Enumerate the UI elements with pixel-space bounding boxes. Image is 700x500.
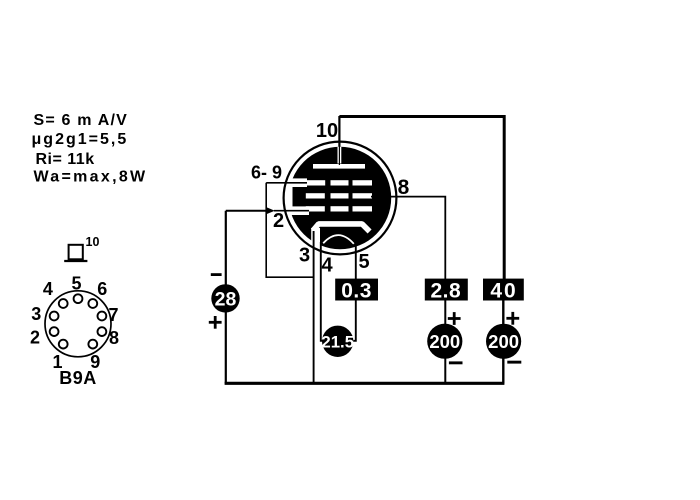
wire 2.8 column to ground bus [444, 301, 446, 384]
svg-text:B9A: B9A [59, 368, 97, 388]
wire 0.3 box to meter 21.5 [354, 301, 356, 341]
minus sign below right meter 200 [507, 361, 521, 364]
svg-text:3: 3 [299, 245, 310, 267]
minus sign above meter 28 [211, 273, 222, 276]
box 0.3 [335, 279, 378, 301]
wire 6-9 down and across to cathode line [266, 183, 313, 277]
svg-text:2: 2 [30, 327, 40, 347]
socket pin hole 9 [88, 340, 97, 349]
svg-text:2: 2 [273, 210, 284, 232]
arrow into tube at pin 2 [267, 207, 275, 214]
white halo around grid 6-9 entry wire [285, 178, 307, 187]
minus sign below left meter 200 [449, 361, 463, 364]
wire pin5 heater to 0.3 box [355, 244, 357, 280]
svg-text:4: 4 [43, 279, 53, 299]
cathode [313, 224, 370, 232]
svg-text:4: 4 [321, 254, 333, 276]
svg-text:8: 8 [109, 328, 119, 348]
grid row 3 dashes [306, 206, 372, 211]
wire pin10 halo through disc [337, 147, 341, 164]
meter 200 left [427, 324, 462, 359]
meter 28 [211, 284, 239, 312]
svg-text:5: 5 [358, 251, 369, 273]
socket pin hole 1 [59, 340, 68, 349]
svg-text:10: 10 [86, 235, 100, 249]
white notch at left electrode entries [285, 179, 292, 213]
socket pin hole 6 [88, 299, 97, 308]
wire anode supply: top run and right drop to 40 box [339, 117, 504, 280]
wire pin8 to 2.8 box [371, 197, 445, 279]
svg-text:2.8: 2.8 [430, 280, 461, 303]
top cap symbol (pin 10) [64, 245, 87, 261]
svg-text:8: 8 [398, 176, 410, 199]
wire 6-9 stub into grid [266, 182, 307, 184]
grid row 1 dashes [305, 180, 372, 185]
ground bus [225, 382, 505, 385]
socket pin hole 4 [59, 299, 68, 308]
svg-text:40: 40 [490, 280, 517, 303]
tube U1 internal black disc [289, 147, 391, 249]
wire 40 column to ground bus [502, 301, 504, 384]
svg-text:S= 6 m A/V: S= 6 m A/V [34, 112, 129, 129]
svg-text:Wa=max,8W: Wa=max,8W [34, 168, 148, 185]
svg-text:28: 28 [215, 289, 237, 311]
wire pin3 cathode to ground bus [313, 231, 315, 384]
svg-text:10: 10 [316, 120, 338, 142]
socket pin hole 3 [50, 312, 59, 321]
plus sign above left meter 200 [448, 312, 461, 325]
wire pin4 heater to meter 21.5 [321, 242, 323, 341]
heater arc [323, 235, 354, 244]
svg-text:200: 200 [488, 331, 519, 352]
grid row 2 dashes [306, 193, 372, 198]
white halo around pin2 entry wire [285, 206, 309, 215]
wire left supply column [225, 211, 227, 384]
box 40 [483, 279, 524, 301]
svg-text:μg2g1=5,5: μg2g1=5,5 [32, 131, 129, 148]
socket outline B9A [45, 291, 111, 357]
socket pin hole 8 [98, 327, 107, 336]
svg-text:5: 5 [71, 274, 81, 294]
svg-text:6: 6 [97, 279, 107, 299]
wire pin10 to anode [338, 116, 340, 165]
meter 21.5 [322, 326, 353, 357]
svg-text:200: 200 [429, 331, 460, 352]
anode plate bar [313, 164, 365, 169]
socket pin hole 5 [74, 294, 83, 303]
svg-text:0.3: 0.3 [341, 280, 372, 303]
tube U1 envelope [284, 142, 397, 255]
svg-text:6-9: 6-9 [251, 163, 282, 183]
socket pin hole 7 [98, 312, 107, 321]
svg-text:3: 3 [31, 304, 41, 324]
box 2.8 [425, 279, 468, 301]
socket pin hole 2 [50, 327, 59, 336]
plus sign above right meter 200 [506, 312, 519, 325]
plus sign below meter 28 [209, 316, 222, 329]
wire supply 28 to pin 2 [226, 210, 268, 212]
wire pin2 entry inside tube [274, 210, 309, 212]
svg-text:7: 7 [108, 305, 118, 325]
white channel along cathode pin3 lead [311, 228, 320, 251]
svg-text:Ri= 11k: Ri= 11k [36, 151, 95, 168]
svg-text:21.5: 21.5 [321, 332, 354, 351]
meter 200 right [486, 324, 521, 359]
